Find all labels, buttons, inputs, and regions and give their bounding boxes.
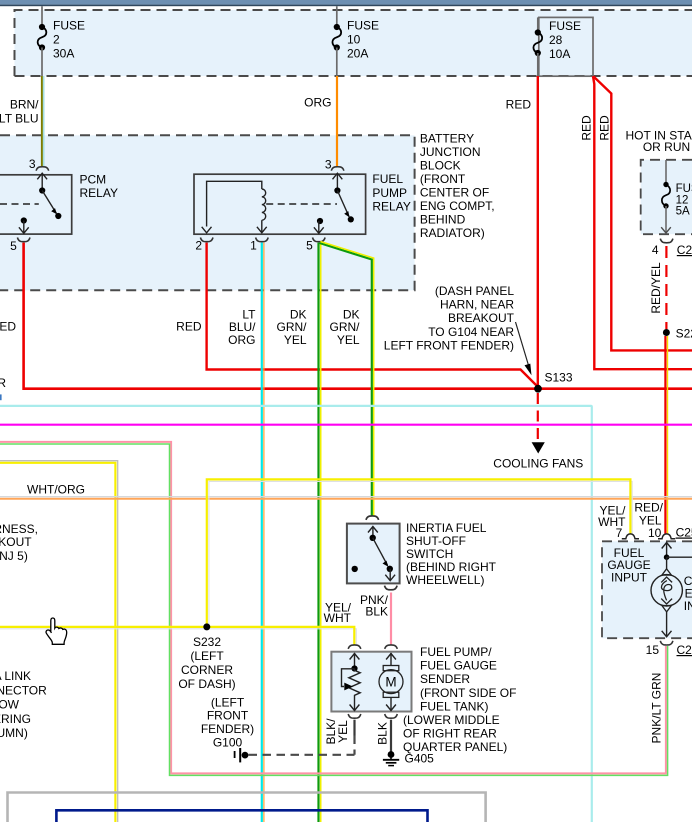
svg-text:UMN): UMN): [0, 726, 28, 740]
svg-text:5: 5: [10, 239, 17, 253]
svg-text:FUSE: FUSE: [549, 19, 581, 33]
svg-text:BREAKOUT: BREAKOUT: [448, 311, 515, 325]
wire PNK/LT GRN loop (pin 15 net): [0, 442, 668, 776]
svg-text:RED/: RED/: [634, 501, 663, 515]
pin 15 connector: [646, 641, 692, 657]
svg-text:G405: G405: [405, 752, 435, 766]
ground G100 symbol: [235, 748, 249, 762]
wire LT BLU/ORG from relay pin 1: [228, 243, 264, 822]
ground G100 label: [201, 695, 254, 749]
YEL/WHT label near pin 7: [598, 504, 626, 530]
svg-text:G100: G100: [213, 736, 243, 750]
svg-text:OF DASH): OF DASH): [178, 677, 235, 691]
svg-text:7: 7: [616, 526, 623, 540]
svg-text:ENG COMPT,: ENG COMPT,: [420, 199, 495, 213]
svg-text:S232: S232: [193, 635, 221, 649]
wire RED/YEL solid (S220 to fuel gauge input pin 10): [665, 336, 667, 534]
svg-text:3: 3: [325, 158, 332, 172]
wire PNK/BLK (inertia switch to sender motor): [360, 593, 391, 646]
hot feed wire RED (right, elbow 1): [580, 76, 692, 369]
svg-text:TO G104 NEAR: TO G104 NEAR: [428, 325, 514, 339]
svg-text:IN: IN: [684, 599, 692, 613]
wire RED from fuel pump relay pin 2 to S133: [176, 243, 537, 386]
svg-text:FUSE: FUSE: [53, 19, 85, 33]
svg-text:FUEL GAUGE: FUEL GAUGE: [420, 659, 497, 673]
battery junction block label: [420, 131, 495, 240]
svg-text:2: 2: [53, 33, 60, 47]
svg-text:M: M: [385, 675, 396, 690]
svg-text:BLK: BLK: [376, 722, 390, 745]
node S232: [178, 623, 235, 691]
svg-text:10: 10: [648, 526, 662, 540]
svg-text:RED: RED: [176, 320, 202, 334]
svg-text:RELAY: RELAY: [80, 186, 118, 200]
annotation arrow to S133: [516, 322, 532, 375]
annotation (DASH PANEL ...): [384, 284, 515, 352]
svg-text:10A: 10A: [549, 47, 570, 61]
connector C232 pin 4: [652, 239, 692, 257]
svg-text:20A: 20A: [347, 47, 368, 61]
svg-text:FUEL: FUEL: [372, 172, 403, 186]
wire RED dashed to cooling fans: [493, 393, 583, 471]
left cut text (data link connector note): [0, 669, 47, 740]
fuse box (battery junction block, top): [15, 10, 692, 76]
svg-text:WHT/ORG: WHT/ORG: [27, 483, 85, 497]
svg-text:BATTERY: BATTERY: [420, 131, 474, 145]
svg-text:FUSE: FUSE: [676, 183, 692, 195]
gray box (bottom): [8, 793, 486, 822]
svg-text:3: 3: [29, 157, 36, 171]
svg-text:5A: 5A: [676, 205, 690, 217]
navy box (bottom): [56, 810, 427, 822]
sender description text: [403, 645, 516, 766]
svg-text:PUMP: PUMP: [372, 186, 407, 200]
svg-text:COOLING FANS: COOLING FANS: [493, 457, 583, 471]
svg-text:(LOWER MIDDLE: (LOWER MIDDLE: [403, 713, 500, 727]
svg-text:(BEHIND RIGHT: (BEHIND RIGHT: [406, 560, 497, 574]
svg-text:LT BLU: LT BLU: [0, 112, 39, 126]
wire ORG (fuse 10 to fuel pump relay pin 3): [304, 76, 337, 167]
fuel pump / fuel gauge sender: [331, 645, 411, 718]
svg-text:BLK: BLK: [365, 605, 388, 619]
svg-text:30A: 30A: [53, 47, 74, 61]
svg-text:BLOCK: BLOCK: [420, 158, 461, 172]
svg-text:LOW: LOW: [0, 698, 20, 712]
wire MAGENTA bus: [0, 424, 692, 426]
svg-text:BRN/: BRN/: [10, 98, 39, 112]
svg-text:YEL: YEL: [336, 720, 350, 743]
svg-text:LEFT FRONT FENDER): LEFT FRONT FENDER): [384, 338, 514, 352]
svg-text:NJ 5): NJ 5): [0, 549, 28, 563]
svg-text:PCM: PCM: [80, 172, 107, 186]
svg-text:BEHIND: BEHIND: [420, 212, 466, 226]
wire DK GRN/YEL from relay pin 5 (straight down): [277, 243, 321, 822]
svg-text:C257: C257: [676, 526, 692, 540]
YEL/WHT label near sender: [324, 601, 352, 626]
inertia fuel shut-off switch: [347, 516, 497, 590]
fuel gauge symbol: [651, 543, 692, 637]
svg-text:NECTOR: NECTOR: [0, 683, 47, 697]
wire YEL (S232 bus to sender): [0, 627, 356, 645]
svg-text:R: R: [0, 376, 6, 390]
pin 10 connector: [648, 526, 692, 541]
svg-text:SWITCH: SWITCH: [406, 547, 453, 561]
svg-text:AKOUT: AKOUT: [0, 535, 32, 549]
svg-text:(LEFT: (LEFT: [190, 649, 224, 663]
wire YEL (S232 to fuel gauge input pin 7): [207, 479, 632, 627]
node S220: [663, 326, 692, 340]
svg-text:INPUT: INPUT: [611, 570, 648, 584]
wire BLK (sender motor to G405): [376, 720, 392, 752]
svg-text:1: 1: [250, 239, 257, 253]
svg-text:OR RUN: OR RUN: [643, 140, 690, 154]
PCM relay: [0, 157, 118, 253]
svg-text:(FRONT: (FRONT: [420, 172, 466, 186]
wire WHT/ORG bus: [0, 483, 692, 499]
svg-text:FUEL TANK): FUEL TANK): [420, 699, 488, 713]
svg-text:C232: C232: [677, 243, 692, 257]
fuse F10 20A: [332, 6, 379, 76]
fuel gauge input connector box: [602, 541, 692, 638]
svg-text:SENDER: SENDER: [420, 672, 470, 686]
svg-text:RED: RED: [0, 320, 16, 334]
left cut text (harness note): [0, 522, 38, 563]
svg-text:(DASH PANEL: (DASH PANEL: [435, 284, 514, 298]
svg-text:5: 5: [306, 239, 313, 253]
wire BRN/LT BLU (fuse 2 to PCM relay pin 3): [0, 76, 44, 166]
svg-text:4: 4: [652, 243, 659, 257]
svg-text:2: 2: [195, 239, 202, 253]
svg-text:HARN, NEAR: HARN, NEAR: [440, 298, 514, 312]
svg-text:15: 15: [646, 643, 660, 657]
titlebar: [0, 0, 692, 6]
mouse cursor: [46, 618, 67, 644]
svg-text:ERING: ERING: [0, 712, 31, 726]
svg-text:S220: S220: [676, 326, 692, 340]
svg-text:INERTIA FUEL: INERTIA FUEL: [406, 521, 487, 535]
svg-text:S133: S133: [545, 371, 573, 385]
svg-text:RADIATOR): RADIATOR): [420, 226, 485, 240]
svg-text:JUNCTION: JUNCTION: [420, 145, 481, 159]
wire RED from fuse 28 down to S133: [506, 76, 538, 387]
svg-text:FENDER): FENDER): [201, 722, 254, 736]
HOT IN START OR RUN label: [625, 129, 692, 155]
svg-text:WHT: WHT: [324, 611, 352, 625]
battery junction block (relay box region): [0, 135, 415, 290]
hot feed wire RED (right, elbow 2): [593, 76, 692, 350]
wire RED/YEL dashed (C232 to S220): [649, 246, 666, 329]
svg-text:YEL: YEL: [284, 333, 307, 347]
svg-text:ORG: ORG: [304, 96, 331, 110]
wire BLK/YEL (sender left pin down, dashed to G100): [324, 718, 355, 755]
svg-text:ORG: ORG: [228, 333, 255, 347]
svg-text:(FRONT SIDE OF: (FRONT SIDE OF: [420, 686, 516, 700]
svg-text:28: 28: [549, 33, 563, 47]
svg-text:FUSE: FUSE: [347, 19, 379, 33]
svg-text:CENTER OF: CENTER OF: [420, 185, 489, 199]
svg-text:(LEFT: (LEFT: [211, 695, 245, 709]
svg-text:10: 10: [347, 33, 361, 47]
right cut text (C / E / IN): [684, 574, 692, 613]
node S133: [534, 371, 573, 393]
svg-text:RED: RED: [598, 115, 612, 141]
svg-text:YEL: YEL: [337, 333, 360, 347]
wire BLK/YEL dashed link G100 to sender: [249, 754, 355, 756]
fuel pump relay: [194, 158, 411, 253]
svg-text:CORNER: CORNER: [181, 663, 233, 677]
svg-text:RED: RED: [506, 98, 532, 112]
fuse F28 10A with sub-box: [533, 17, 593, 76]
svg-text:FRONT: FRONT: [207, 709, 249, 723]
fuse F2 30A: [38, 6, 85, 76]
wire RED from PCM pin 5 + S133 bus: [0, 243, 692, 401]
wire DK GRN/YEL from relay pin 5 to inertia switch: [320, 242, 374, 517]
svg-text:RNESS,: RNESS,: [0, 522, 38, 536]
RED/YEL label near pin 10: [634, 501, 663, 528]
wire LT GRN horizontal + vertical (light cyan): [0, 406, 592, 822]
svg-text:FUEL PUMP/: FUEL PUMP/: [420, 645, 492, 659]
svg-text:PNK/LT GRN: PNK/LT GRN: [650, 673, 664, 744]
svg-text:RED: RED: [580, 115, 594, 141]
ground G405 symbol: [383, 751, 399, 766]
svg-text:RELAY: RELAY: [372, 200, 410, 214]
svg-text:A LINK: A LINK: [0, 669, 31, 683]
svg-text:C257: C257: [677, 643, 692, 657]
svg-text:OF RIGHT REAR: OF RIGHT REAR: [403, 727, 497, 741]
svg-text:RED/YEL: RED/YEL: [649, 262, 663, 314]
fuse F12 5A dashed box: [641, 160, 692, 234]
svg-text:WHEELWELL): WHEELWELL): [406, 573, 484, 587]
wire YEL/WHT (left, with white stripe): [0, 461, 118, 822]
pin 7 connector: [616, 526, 639, 540]
svg-text:SHUT-OFF: SHUT-OFF: [406, 534, 466, 548]
